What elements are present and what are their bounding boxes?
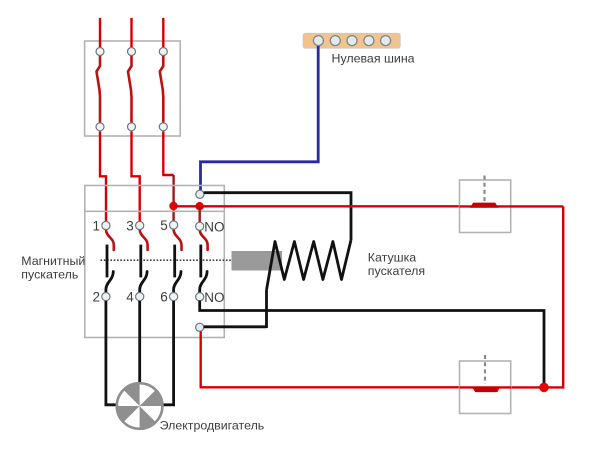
svg-text:NO: NO bbox=[204, 290, 224, 305]
motor M bbox=[116, 382, 164, 430]
svg-text:3: 3 bbox=[126, 218, 134, 233]
label 4 bbox=[126, 290, 134, 305]
svg-text:пускатель: пускатель bbox=[21, 267, 78, 281]
wire L1 feed bbox=[99, 18, 101, 47]
circuit breaker QF box bbox=[85, 41, 181, 136]
contact pole 2 lower hook bbox=[140, 272, 147, 293]
breaker terminal bottom 1 bbox=[96, 123, 104, 131]
svg-text:5: 5 bbox=[160, 218, 168, 233]
svg-text:Катушка: Катушка bbox=[368, 250, 416, 264]
contact pole NO fixed bar bbox=[199, 245, 202, 278]
breaker pole 1 blade bbox=[97, 56, 101, 123]
wire L2 feed bbox=[130, 18, 132, 47]
svg-text:1: 1 bbox=[93, 218, 101, 233]
breaker terminal top 2 bbox=[128, 48, 136, 56]
wire coil bottom to terminal A2 bbox=[204, 325, 267, 328]
contact pole 3 moving blade (red) bbox=[174, 230, 182, 250]
coil armature block bbox=[232, 251, 283, 271]
label 5 bbox=[160, 218, 168, 233]
wire control phase to stop button bbox=[174, 205, 460, 207]
svg-text:Нулевая шина: Нулевая шина bbox=[332, 52, 415, 66]
coil of starter (zigzag) bbox=[267, 240, 352, 328]
junction dot start/black bbox=[539, 383, 549, 393]
svg-text:4: 4 bbox=[126, 290, 134, 305]
breaker pole 2 blade bbox=[128, 56, 132, 123]
neutral bus bbox=[303, 34, 400, 49]
terminal 1 bbox=[102, 221, 110, 229]
wire L3 drop to terminal 5 (dark) bbox=[172, 175, 174, 221]
label coil bbox=[368, 250, 425, 277]
stop button box bbox=[460, 180, 511, 233]
svg-text:NO: NO bbox=[204, 220, 224, 235]
start button box bbox=[460, 361, 511, 414]
breaker terminal top 3 bbox=[159, 48, 167, 56]
wire coil top (black) bbox=[204, 193, 351, 240]
terminal 4 bbox=[136, 293, 144, 301]
wire L3 breaker to contactor bbox=[163, 131, 173, 175]
contact pole NO lower hook bbox=[200, 272, 207, 293]
coil terminal A1 bbox=[196, 190, 204, 198]
contactor KM box bbox=[85, 186, 225, 338]
breaker pole 3 blade bbox=[160, 56, 164, 123]
contact pole 2 fixed bar bbox=[139, 245, 142, 278]
wire NO top from junction bbox=[198, 206, 200, 222]
wire L1 breaker to contactor bbox=[100, 131, 106, 221]
stop button NC contact bbox=[460, 203, 512, 208]
start button NO contact bbox=[460, 387, 512, 392]
terminal NO bottom bbox=[196, 293, 204, 301]
terminal 3 bbox=[136, 221, 144, 229]
wire motor phase 2 bbox=[106, 301, 116, 405]
svg-text:6: 6 bbox=[160, 290, 168, 305]
mechanical link dotted line bbox=[101, 259, 234, 261]
contact pole 2 moving blade (red) bbox=[140, 230, 148, 250]
stop button stem (dashed) bbox=[483, 176, 485, 203]
wire L3 feed bbox=[162, 18, 164, 47]
label 6 bbox=[160, 290, 168, 305]
label 2 bbox=[93, 290, 101, 305]
junction dot NO column bbox=[195, 202, 203, 210]
wire motor phase 4 bbox=[138, 301, 141, 383]
label motor bbox=[160, 419, 265, 433]
wire L2 breaker to contactor bbox=[132, 131, 140, 221]
label magnetic starter bbox=[21, 254, 85, 281]
label 3 bbox=[126, 218, 134, 233]
label NO bottom bbox=[204, 290, 224, 305]
svg-text:Электродвигатель: Электродвигатель bbox=[160, 419, 265, 433]
label NO top bbox=[204, 220, 224, 235]
contact pole 1 moving blade (red) bbox=[106, 230, 114, 250]
contact pole NO moving blade (red) bbox=[200, 230, 208, 250]
contact pole 3 fixed bar bbox=[173, 245, 176, 278]
label 1 bbox=[93, 218, 101, 233]
wire motor phase 6 bbox=[164, 301, 174, 405]
start button stem (dashed) bbox=[484, 355, 486, 384]
svg-text:2: 2 bbox=[93, 290, 101, 305]
contact pole 3 lower hook bbox=[174, 272, 181, 293]
wire N (blue) bus to coil terminal bbox=[201, 46, 319, 191]
terminal 5 bbox=[170, 221, 178, 229]
wire stop button to right rail bbox=[511, 205, 563, 207]
coil terminal A2 bbox=[196, 323, 204, 331]
label neutral bus bbox=[332, 52, 415, 66]
terminal 2 bbox=[102, 293, 110, 301]
junction dot L3 control tap bbox=[169, 202, 177, 210]
wire NO bottom to start button junction (black) bbox=[200, 301, 544, 386]
breaker terminal bottom 3 bbox=[159, 123, 167, 131]
terminal NO top bbox=[196, 222, 204, 230]
breaker terminal top 1 bbox=[96, 48, 104, 56]
breaker terminal bottom 2 bbox=[128, 123, 136, 131]
svg-text:Магнитный: Магнитный bbox=[21, 254, 85, 268]
right rail (red) bbox=[511, 206, 563, 387]
terminal 6 bbox=[170, 293, 178, 301]
wire coil A2 to start button (red) bbox=[201, 332, 460, 388]
contact pole 1 lower hook bbox=[106, 272, 113, 293]
svg-text:пускателя: пускателя bbox=[368, 264, 425, 278]
contact pole 1 fixed bar bbox=[106, 245, 109, 278]
